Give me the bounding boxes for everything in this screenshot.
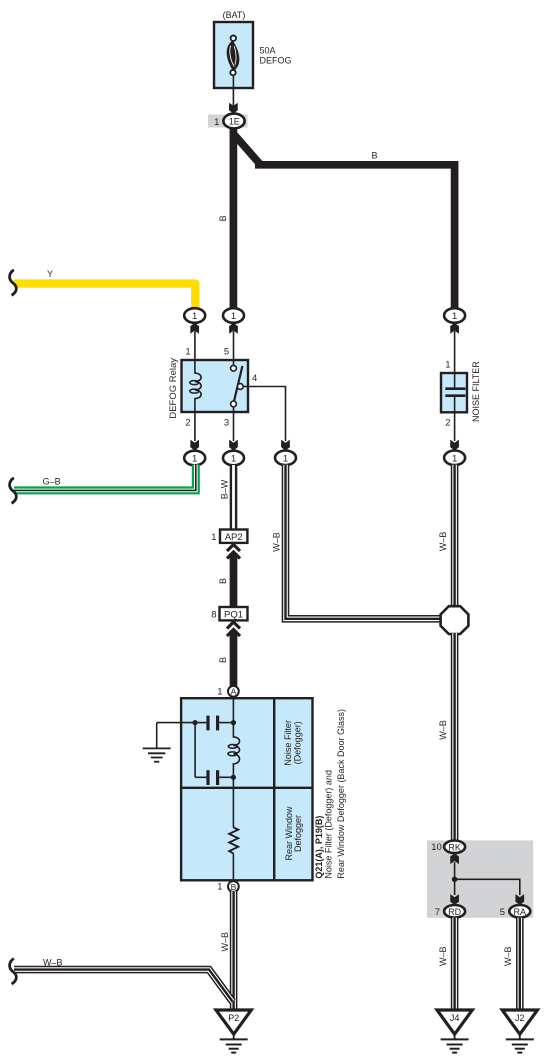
pin 8 label of PQ1 — [211, 610, 216, 621]
label 50A DEFOG — [260, 46, 292, 66]
wire B with chevron arrows PQ1 to A — [227, 622, 240, 686]
svg-text:RA: RA — [514, 907, 527, 917]
svg-text:5: 5 — [500, 907, 505, 918]
svg-text:1: 1 — [452, 453, 457, 464]
left vertical wire — [194, 723, 196, 778]
wire-break curl G-B — [10, 478, 17, 504]
svg-text:B: B — [218, 215, 228, 221]
ground symbol (noise filter) — [143, 748, 171, 761]
svg-text:5: 5 — [224, 347, 229, 358]
wire B branch to right — [235, 135, 455, 309]
big box Q21/P19 — [181, 698, 312, 880]
pin 5 label of RA — [500, 907, 505, 918]
relay pin label 1 — [185, 347, 190, 358]
wire relay pin3 down — [233, 412, 235, 441]
label B — [218, 578, 228, 584]
fuse F1 50A DEFOG body — [214, 22, 253, 88]
ground triangle J2 — [502, 1010, 537, 1034]
svg-text:1: 1 — [214, 117, 219, 128]
label NOISE FILTER — [471, 361, 481, 422]
arrow down into pin4 oval — [281, 440, 290, 451]
svg-text:B: B — [218, 578, 228, 584]
svg-text:P2: P2 — [228, 1013, 239, 1023]
connector RD oval — [444, 905, 465, 918]
wire B with chevron arrows AP2 to PQ1 — [227, 545, 240, 608]
label Noise Filter (Defogger) — [283, 720, 302, 766]
label W-B right upper — [438, 532, 448, 552]
relay pin label 4 — [252, 373, 257, 384]
wire W-B from pin4 oval to octagon — [286, 465, 443, 619]
svg-text:1: 1 — [217, 882, 222, 893]
arrow into 1E — [229, 103, 238, 114]
svg-text:1: 1 — [452, 311, 457, 322]
svg-text:1: 1 — [192, 311, 197, 322]
svg-text:Noise Filter (Defogger) and: Noise Filter (Defogger) and — [324, 770, 334, 879]
svg-text:W–B: W–B — [438, 720, 448, 740]
wire A into box — [232, 696, 234, 723]
wire W-B octagon down to RK — [451, 633, 459, 841]
svg-text:B–W: B–W — [219, 479, 229, 499]
label DEFOG Relay — [168, 358, 179, 419]
svg-text:1: 1 — [445, 360, 450, 371]
svg-text:B: B — [218, 657, 228, 663]
connector RK oval — [444, 841, 465, 854]
svg-text:B: B — [231, 882, 237, 892]
connector oval 1 (pin4) — [275, 451, 296, 466]
label B vertical — [218, 215, 228, 221]
relay coil — [190, 360, 201, 412]
ground symbol P2 — [220, 1034, 248, 1052]
top branch wire — [157, 722, 234, 724]
relay switch — [231, 360, 244, 412]
noise filter box — [441, 373, 467, 412]
wire W-B from B to ground P2 — [230, 891, 238, 1010]
junction octagon — [441, 606, 469, 634]
label W-B — [220, 932, 230, 952]
noise filter pin 1 label — [445, 360, 450, 371]
pin 1 label of 1E — [214, 117, 219, 128]
svg-text:NOISE FILTER: NOISE FILTER — [471, 361, 481, 422]
noise filter pin 2 label — [445, 418, 450, 429]
svg-text:1: 1 — [217, 687, 222, 698]
svg-text:1: 1 — [283, 453, 288, 464]
svg-text:1: 1 — [185, 347, 190, 358]
pin 10 label of RK — [431, 842, 442, 853]
connector oval 1 (pin3) — [223, 451, 244, 466]
svg-text:B: B — [371, 151, 377, 161]
wire-break curl W-B — [10, 959, 17, 985]
svg-text:1E: 1E — [229, 117, 240, 127]
divider horizontal — [181, 787, 312, 789]
wire W-B RA to J2 — [516, 918, 524, 1010]
arrow up below yellow oval — [190, 323, 199, 334]
wire-break curl yellow — [10, 270, 17, 296]
ground triangle P2 — [216, 1010, 251, 1034]
relay pin label 5 — [224, 347, 229, 358]
svg-text:Rear Window Defogger (Back Doo: Rear Window Defogger (Back Door Glass) — [336, 709, 346, 879]
connector band 1E — [208, 115, 248, 128]
svg-text:1: 1 — [192, 454, 197, 465]
junction block (gray) — [427, 840, 533, 917]
svg-text:G–B: G–B — [43, 477, 61, 487]
label Rear Window Defogger — [284, 806, 303, 861]
wire to noise filter pin 1 — [454, 331, 456, 373]
connector 1E oval — [223, 114, 244, 129]
svg-text:RK: RK — [448, 842, 461, 852]
svg-text:(Defogger): (Defogger) — [292, 721, 302, 764]
label (BAT) — [223, 10, 246, 20]
label G-B — [43, 477, 61, 487]
wire B-W — [230, 465, 238, 530]
svg-text:PQ1: PQ1 — [224, 610, 243, 621]
svg-text:W–B: W–B — [271, 532, 281, 552]
label B — [218, 657, 228, 663]
svg-text:2: 2 — [185, 418, 190, 429]
svg-text:RD: RD — [448, 907, 461, 917]
svg-text:J4: J4 — [450, 1013, 460, 1023]
wire Y yellow — [14, 284, 195, 309]
wire W-B RD to J4 — [451, 918, 459, 1010]
connector RA oval — [509, 905, 530, 918]
label Y — [47, 269, 53, 279]
svg-text:AP2: AP2 — [225, 532, 243, 543]
svg-text:1: 1 — [231, 311, 236, 322]
label B horizontal — [371, 151, 377, 161]
svg-text:2: 2 — [445, 418, 450, 429]
label W-B right lower — [438, 720, 448, 740]
capacitor C2 — [208, 770, 218, 785]
arrow down into pin3 oval — [229, 440, 238, 451]
node dot bottom-center — [231, 775, 236, 780]
svg-text:3: 3 — [224, 418, 229, 429]
svg-text:W–B: W–B — [503, 946, 513, 966]
connector oval 1 (main B, relay pin5 feed) — [223, 308, 244, 323]
inductor L1 — [228, 723, 240, 778]
wire to relay pin 1 — [194, 331, 196, 360]
label W-B left branch — [271, 532, 281, 552]
node B circle — [228, 881, 239, 892]
svg-text:8: 8 — [211, 610, 216, 621]
node dot top-left — [193, 720, 198, 725]
connector AP2 — [220, 530, 247, 544]
wire B main vertical thick — [230, 128, 238, 309]
wire dot to RA branch — [455, 879, 520, 895]
svg-text:10: 10 — [431, 842, 442, 853]
relay pin label 3 — [224, 418, 229, 429]
svg-text:4: 4 — [252, 373, 257, 384]
capacitor C1 — [208, 716, 218, 731]
wire W-B from left body ground — [14, 970, 233, 1002]
resistor R1 (defogger grid) — [229, 827, 238, 853]
arrow down into right oval — [450, 440, 459, 451]
arrow up below main oval — [229, 323, 238, 334]
wire W-B right vertical to octagon — [451, 465, 459, 607]
svg-text:7: 7 — [435, 907, 440, 918]
label W-B (J2 wire) — [503, 946, 513, 966]
svg-text:1: 1 — [211, 532, 216, 543]
pin 1 label of AP2 — [211, 532, 216, 543]
label W-B horizontal — [43, 958, 63, 968]
wire fuse to connector 1E — [232, 75, 234, 110]
pin 1 label of A — [217, 687, 222, 698]
svg-text:1: 1 — [231, 454, 236, 465]
wire G-B green — [14, 465, 196, 491]
arrow down into pin2 oval — [190, 440, 199, 451]
arrow down into RA — [515, 894, 524, 905]
wire RK to junction dot — [454, 862, 456, 879]
bottom branch wire — [195, 776, 233, 778]
wire relay pin4 to oval — [243, 387, 285, 442]
ground triangle J4 — [437, 1010, 472, 1034]
wire resistor to B — [232, 853, 234, 882]
arrow up below right oval — [450, 323, 459, 334]
node A circle — [228, 686, 239, 697]
svg-text:(BAT): (BAT) — [223, 10, 246, 20]
wire center through divider — [232, 777, 234, 827]
svg-text:W–B: W–B — [43, 958, 63, 968]
svg-text:50A: 50A — [260, 46, 276, 56]
arrow up below RK — [450, 853, 459, 864]
labels right of big box — [314, 816, 324, 879]
ground symbol J4 — [441, 1034, 469, 1052]
connector oval 1 (pin2) — [184, 451, 205, 466]
pin 1 label of B — [217, 882, 222, 893]
svg-text:W–B: W–B — [438, 532, 448, 552]
wire relay pin2 down — [194, 412, 196, 441]
fuse element symbol — [227, 36, 240, 76]
svg-text:DEFOG: DEFOG — [260, 56, 292, 66]
label B-W — [219, 479, 229, 499]
svg-text:A: A — [231, 687, 237, 697]
divider vertical — [273, 698, 275, 880]
connector PQ1 — [220, 607, 248, 621]
ground wire inside box — [156, 723, 158, 749]
connector oval 1 (noise filter out) — [444, 451, 465, 466]
label W-B (J4 wire) — [438, 946, 448, 966]
wire to relay pin 5 — [233, 331, 235, 360]
relay pin label 2 — [185, 418, 190, 429]
pin 7 label of RD — [435, 907, 440, 918]
noise filter capacitor — [445, 373, 465, 412]
svg-text:J2: J2 — [515, 1013, 525, 1023]
svg-text:W–B: W–B — [438, 946, 448, 966]
svg-text:Defogger: Defogger — [293, 815, 303, 852]
relay U1 DEFOG Relay box — [182, 360, 249, 412]
svg-text:W–B: W–B — [220, 932, 230, 952]
svg-text:DEFOG Relay: DEFOG Relay — [168, 358, 179, 419]
connector oval 1 (right B, noise filter feed) — [444, 308, 465, 323]
node dot top-center — [231, 720, 236, 725]
svg-text:Y: Y — [47, 269, 53, 279]
ground symbol J2 — [506, 1034, 534, 1052]
arrow down into RD — [450, 894, 459, 905]
wire noise filter pin2 down — [454, 412, 456, 441]
junction dot — [452, 877, 458, 883]
connector oval 1 (yellow, relay pin1 feed) — [184, 308, 205, 323]
wire dot to RD — [454, 879, 456, 895]
